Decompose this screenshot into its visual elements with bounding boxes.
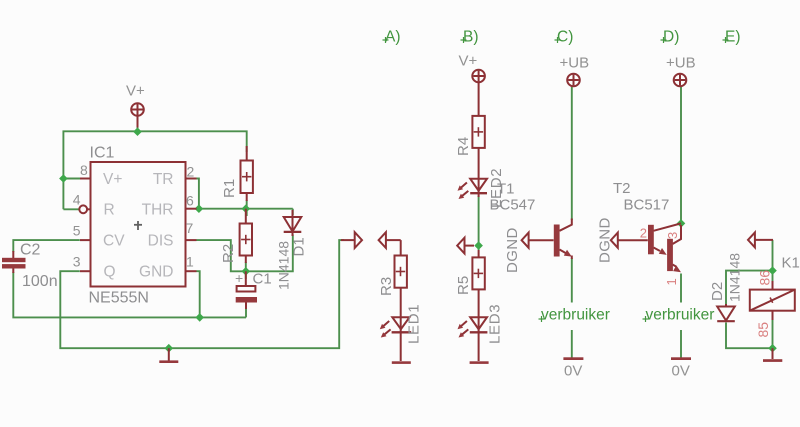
svg-text:THR: THR	[142, 202, 174, 219]
svg-text:DGND: DGND	[597, 217, 614, 263]
svg-text:Q: Q	[104, 264, 116, 281]
svg-text:BC517: BC517	[624, 197, 670, 214]
svg-text:BC547: BC547	[490, 197, 536, 214]
svg-text:D2: D2	[709, 282, 726, 301]
svg-text:8: 8	[80, 162, 88, 178]
svg-text:DGND: DGND	[504, 227, 521, 273]
svg-text:R2: R2	[220, 244, 237, 263]
svg-text:R5: R5	[455, 276, 472, 295]
svg-text:NE555N: NE555N	[89, 290, 149, 307]
svg-text:TR: TR	[153, 171, 174, 188]
svg-text:GND: GND	[139, 264, 173, 281]
svg-text:C1: C1	[253, 271, 272, 288]
svg-text:C2: C2	[20, 242, 41, 259]
svg-text:0V: 0V	[672, 363, 690, 380]
svg-text:1N4148: 1N4148	[276, 241, 292, 290]
svg-text:1: 1	[186, 254, 194, 270]
svg-text:V+: V+	[103, 171, 122, 188]
svg-text:K1: K1	[782, 255, 800, 272]
svg-text:+: +	[235, 270, 243, 286]
svg-text:7: 7	[186, 220, 194, 236]
svg-text:1: 1	[664, 278, 679, 285]
svg-text:+UB: +UB	[666, 55, 696, 72]
svg-text:85: 85	[755, 322, 771, 338]
svg-text:0V: 0V	[564, 363, 582, 380]
svg-text:IC1: IC1	[90, 145, 115, 162]
svg-text:6: 6	[186, 193, 194, 209]
svg-text:T2: T2	[613, 180, 631, 197]
svg-text:1N4148: 1N4148	[727, 253, 743, 302]
svg-text:LED1: LED1	[406, 304, 423, 344]
svg-text:3: 3	[73, 254, 81, 270]
svg-text:D1: D1	[291, 237, 308, 256]
svg-text:5: 5	[73, 223, 81, 239]
svg-text:2: 2	[640, 226, 647, 241]
svg-text:R1: R1	[221, 179, 238, 198]
svg-text:4: 4	[73, 192, 81, 208]
svg-text:A): A)	[385, 29, 401, 46]
svg-text:C): C)	[557, 29, 573, 46]
svg-text:T1: T1	[497, 181, 515, 198]
svg-text:V+: V+	[459, 53, 478, 70]
svg-text:D): D)	[663, 29, 679, 46]
svg-text:LED3: LED3	[487, 304, 504, 344]
svg-text:3: 3	[665, 232, 680, 239]
svg-text:V+: V+	[126, 83, 145, 100]
svg-text:verbruiker: verbruiker	[646, 307, 715, 324]
svg-text:R: R	[104, 202, 115, 219]
svg-text:R3: R3	[378, 277, 395, 296]
svg-text:2: 2	[187, 164, 195, 180]
svg-text:+UB: +UB	[560, 55, 590, 72]
svg-text:E): E)	[725, 29, 741, 46]
svg-text:100n: 100n	[22, 273, 58, 290]
svg-text:86: 86	[757, 270, 773, 286]
svg-text:R4: R4	[455, 137, 472, 156]
svg-text:B): B)	[463, 29, 479, 46]
svg-text:verbruiker: verbruiker	[541, 307, 610, 324]
svg-text:CV: CV	[103, 233, 125, 250]
svg-text:DIS: DIS	[148, 233, 174, 250]
